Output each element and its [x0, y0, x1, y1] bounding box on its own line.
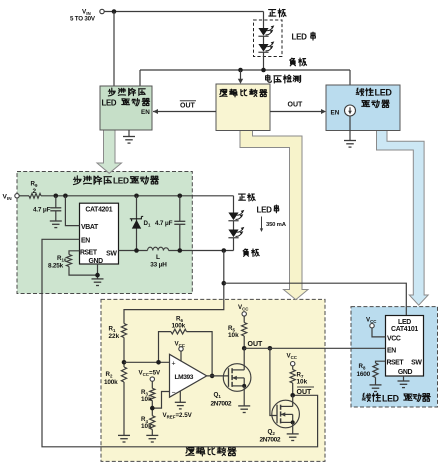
- svg-text:1600: 1600: [357, 371, 371, 378]
- svg-text:EN: EN: [387, 348, 396, 355]
- svg-text:10k: 10k: [141, 396, 152, 403]
- svg-text:SW: SW: [106, 250, 117, 257]
- svg-text:5 TO 30V: 5 TO 30V: [70, 15, 96, 22]
- svg-text:OUT: OUT: [288, 102, 304, 109]
- svg-text:10k: 10k: [297, 379, 308, 386]
- svg-text:EN: EN: [141, 109, 150, 116]
- svg-text:CAT4201: CAT4201: [85, 207, 112, 214]
- svg-text:RSET: RSET: [387, 360, 405, 367]
- svg-text:L: L: [156, 254, 160, 261]
- svg-text:EN: EN: [331, 110, 340, 117]
- svg-text:2: 2: [33, 188, 37, 195]
- svg-text:SW: SW: [411, 360, 422, 367]
- svg-text:LED: LED: [113, 175, 129, 185]
- svg-text:LED: LED: [292, 33, 308, 42]
- svg-text:GND: GND: [398, 369, 413, 376]
- svg-text:100k: 100k: [104, 379, 118, 386]
- svg-text:10k: 10k: [141, 423, 152, 430]
- svg-text:LED: LED: [398, 319, 411, 326]
- svg-text:100k: 100k: [172, 323, 186, 330]
- svg-text:LED: LED: [375, 87, 393, 97]
- svg-text:10k: 10k: [228, 332, 239, 339]
- svg-text:4.7 μF: 4.7 μF: [155, 220, 173, 227]
- svg-text:OUT: OUT: [297, 389, 313, 396]
- svg-text:2N7002: 2N7002: [260, 437, 281, 444]
- svg-text:LED: LED: [382, 393, 399, 403]
- svg-text:OUT: OUT: [248, 341, 264, 348]
- svg-text:350 mA: 350 mA: [266, 222, 287, 228]
- svg-text:2N7002: 2N7002: [211, 401, 232, 408]
- svg-text:4.7 μF: 4.7 μF: [33, 206, 51, 213]
- svg-text:CAT4101: CAT4101: [391, 326, 418, 333]
- svg-text:22k: 22k: [109, 333, 120, 340]
- svg-text:EN: EN: [81, 238, 90, 245]
- svg-text:VBAT: VBAT: [81, 224, 99, 231]
- svg-text:+: +: [172, 360, 176, 367]
- svg-text:OUT: OUT: [180, 102, 196, 109]
- svg-text:LED: LED: [102, 98, 117, 107]
- svg-text:LED: LED: [257, 205, 273, 214]
- svg-text:VCC: VCC: [387, 336, 401, 343]
- svg-text:LM393: LM393: [175, 374, 194, 381]
- svg-text:8.25k: 8.25k: [48, 262, 64, 269]
- svg-text:GND: GND: [89, 258, 104, 265]
- svg-text:−: −: [172, 390, 176, 397]
- svg-text:33 μH: 33 μH: [150, 261, 167, 268]
- svg-text:VCC=5V: VCC=5V: [139, 370, 162, 378]
- svg-text:RSET: RSET: [80, 249, 98, 256]
